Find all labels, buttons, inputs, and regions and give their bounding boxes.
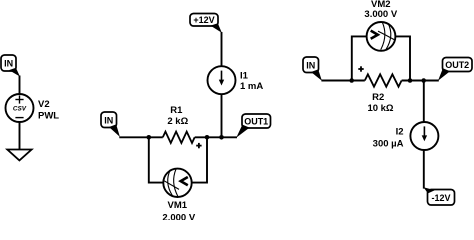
label R2 10 kOhm — [367, 92, 393, 114]
wire VM1 right — [192, 139, 207, 183]
node dot VM2 right junction — [408, 78, 413, 83]
svg-text:2 kΩ: 2 kΩ — [167, 116, 188, 127]
svg-text:IN: IN — [4, 59, 13, 69]
wire VM1 left — [149, 139, 163, 183]
label VM2 3.000 V — [364, 0, 397, 20]
svg-text:R1: R1 — [170, 105, 183, 116]
voltmeter VM2 — [367, 22, 396, 51]
svg-text:R2: R2 — [372, 92, 384, 103]
label V2 PWL — [38, 99, 59, 122]
resistor R2 — [365, 74, 402, 86]
flag IN (middle) — [101, 112, 120, 137]
node dot left of R2 — [349, 78, 354, 83]
svg-text:-12V: -12V — [431, 193, 450, 203]
flag +12V — [190, 14, 222, 33]
voltage source V2 — [6, 94, 34, 122]
node dot right of R1 — [205, 135, 210, 140]
svg-text:OUT1: OUT1 — [244, 117, 268, 127]
voltmeter VM1 — [163, 169, 191, 197]
wire rail middle right — [195, 136, 237, 138]
wire rail right-left segment — [321, 80, 364, 82]
resistor R1 — [163, 132, 195, 143]
svg-text:IN: IN — [104, 115, 113, 125]
ground — [7, 150, 31, 161]
flag -12V — [424, 187, 455, 205]
svg-text:300 µA: 300 µA — [373, 138, 404, 149]
svg-text:PWL: PWL — [38, 110, 59, 121]
wire rail to I2 — [423, 81, 425, 123]
node dot left of R1 — [147, 135, 152, 140]
wire I1 to rail — [221, 94, 223, 137]
wire I2 to -12V — [423, 150, 425, 189]
current source I1 — [208, 66, 236, 94]
svg-text:I2: I2 — [396, 127, 404, 138]
plus mark at R2 left — [358, 66, 363, 71]
svg-text:10 kΩ: 10 kΩ — [367, 103, 393, 114]
label VM1 2.000 V — [162, 200, 195, 223]
wire V2 to ground — [19, 122, 21, 149]
svg-text:V2: V2 — [38, 99, 50, 110]
svg-text:VM1: VM1 — [168, 200, 188, 211]
wire VM2 left — [352, 36, 367, 79]
node dot I1 junction — [219, 135, 224, 140]
svg-text:IN: IN — [306, 60, 315, 70]
label R1 2 kOhm — [167, 105, 188, 127]
svg-text:2.000 V: 2.000 V — [162, 212, 195, 220]
flag OUT1 — [236, 114, 270, 138]
flag IN (left input) — [1, 55, 20, 77]
wire VM2 right — [395, 36, 410, 79]
current source I2 — [410, 122, 438, 150]
label I2 300 uA — [373, 127, 404, 150]
wire rail right-right segment — [402, 80, 439, 82]
wire IN to V2 — [19, 76, 21, 95]
svg-text:+12V: +12V — [193, 15, 214, 25]
svg-text:1 mA: 1 mA — [240, 81, 263, 92]
wire rail middle left — [119, 136, 163, 138]
label I1 1 mA — [240, 70, 263, 92]
svg-text:CSV: CSV — [13, 106, 27, 113]
svg-text:I1: I1 — [240, 70, 249, 81]
svg-text:3.000 V: 3.000 V — [364, 9, 397, 20]
wire +12V to I1 — [221, 32, 223, 67]
node dot I2 junction — [421, 78, 426, 83]
plus mark at R1 right — [196, 143, 201, 148]
svg-text:OUT2: OUT2 — [445, 60, 469, 70]
flag IN (right) — [303, 57, 322, 81]
flag OUT2 — [438, 58, 472, 81]
